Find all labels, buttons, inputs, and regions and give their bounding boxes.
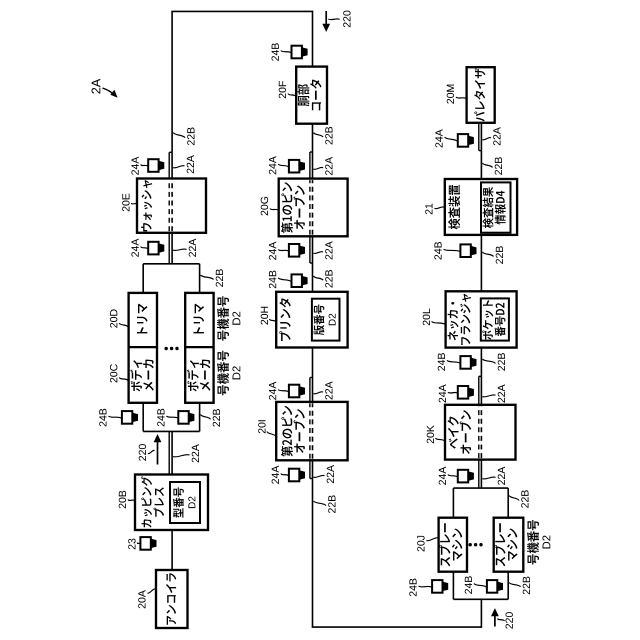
- wire row3: 21 to 22A stub before palletizer: [480, 151, 482, 179]
- data box 版番号 D2 in 20H: [312, 299, 340, 341]
- label 22A before 20M: [493, 127, 500, 145]
- label 22B at right bank bus: [216, 269, 223, 287]
- camera 24B before spray machine 1: [432, 580, 442, 593]
- data box 検査結果情報D4 in 21: [481, 182, 511, 232]
- label 情報D4: [495, 191, 506, 225]
- label 220 row3: [506, 612, 513, 629]
- label 220 row1: [139, 444, 146, 461]
- leader to camera 24A left of pin oven 20I: [281, 474, 289, 477]
- label 22B between 20F and 20G: [325, 127, 332, 145]
- leader for 22A right of 20I: [314, 392, 324, 394]
- label 20I 2nd pin oven: [258, 420, 265, 433]
- label オーブン in 20I: [293, 409, 305, 453]
- machine box 20L necker flanger: [446, 291, 517, 347]
- leader for 22B between 20G and 20H: [314, 276, 324, 280]
- leader for 20D trimmer: [119, 323, 128, 327]
- machine box bodymaker/trimmer pair 2: [185, 293, 213, 403]
- label D2 under bodymaker 2: [232, 366, 240, 379]
- leader to camera 24B right of coater 20F: [281, 51, 291, 54]
- wire row2: printer 20H to 2nd pin oven 20I with 22A stub: [312, 348, 314, 402]
- wire pair row3: bus to bake oven 20K: [480, 460, 482, 489]
- label パレタイザ: [474, 68, 485, 121]
- label 24A for camera 24A left of bake oven 20K: [439, 467, 446, 485]
- label プリンタ: [279, 298, 291, 341]
- label 22B between 20K and 20L: [498, 353, 505, 371]
- label メーカ 1: [143, 360, 154, 391]
- label 24A for camera 24A before palletizer 20M: [435, 129, 442, 147]
- label 22A left of 20K: [498, 467, 505, 485]
- label 220 row2: [343, 11, 350, 28]
- label 22A left of 20I: [327, 465, 334, 483]
- branch wire spray machine 1 to right bus: [452, 488, 454, 518]
- label マシン 2: [507, 528, 518, 560]
- label 20D trimmer: [110, 309, 117, 327]
- wire pair row3: 20K to secondary end: [480, 376, 482, 405]
- label トリマ 2: [194, 304, 205, 334]
- tick start of conveyor 22A row2: [310, 151, 313, 153]
- label 号機番号 under bodymaker 2: [217, 351, 229, 396]
- bus line left of spray machine bank: [453, 598, 508, 600]
- leader for 22B between 20L and 21: [482, 252, 493, 257]
- leader to camera 23 between 20A and 20B: [137, 543, 140, 545]
- machine box 20B cupping press: [135, 475, 208, 531]
- camera 24A right of pin oven 20I: [289, 385, 299, 398]
- label 20K bake oven: [427, 425, 434, 443]
- leader to camera 24B before bodymaker 2: [167, 416, 179, 418]
- label 20G 1st pin oven: [261, 197, 268, 216]
- label 番号D2: [495, 303, 506, 336]
- branch wire to bodymaker/trimmer row 2: [199, 403, 201, 432]
- machine box 20I 2nd pin oven: [276, 402, 347, 460]
- arrow 220 flow row3: [494, 615, 496, 626]
- ellipsis dots between bodymaker pairs: [165, 347, 168, 350]
- wire pair row1: washer to 22A end tick: [171, 152, 173, 178]
- leader to camera 24B before spray machine 2: [474, 584, 487, 588]
- label 24A for camera 24A right of bake oven 20K: [439, 384, 446, 402]
- dashed conveyor through washer 20E: [171, 180, 173, 231]
- leader for 20F coater: [288, 94, 296, 97]
- label 22B end of row1: [187, 127, 194, 145]
- label 20M palletizer: [447, 85, 454, 104]
- wire conveyor 22A row1: uncoiler 20A to cupping press 20B: [171, 530, 173, 570]
- leader for 22B end of row1: [173, 133, 185, 138]
- leader 220 row3: [498, 619, 505, 622]
- label 20E washer: [122, 194, 129, 212]
- label 24B for camera 24B before spray machine 1: [409, 579, 416, 597]
- camera 24B between 20K and 20L: [460, 356, 470, 369]
- machine box 20K bake oven: [445, 405, 516, 460]
- label ベイク: [448, 416, 459, 448]
- bus line left of bodymaker bank: [143, 430, 199, 432]
- branch wire to spray machine 2: [507, 572, 509, 600]
- machine box 20M palletizer: [467, 67, 495, 123]
- leader to camera 24A right of washer: [141, 165, 148, 167]
- label 22A right of 20I: [325, 381, 332, 399]
- leader to camera 24B before bodymaker 1: [109, 416, 122, 418]
- tick end of 22A row2: [310, 478, 313, 480]
- label 胴部: [298, 84, 310, 106]
- leader for 20C bodymaker: [119, 378, 128, 381]
- label スプレー 2: [494, 523, 505, 566]
- wire row3: to necker-flanger 20L: [480, 348, 482, 377]
- leader for 22B between 20F and 20G: [314, 133, 324, 138]
- leader for 22A at 20B: [173, 455, 189, 457]
- camera 24B before spray machine 2: [487, 580, 497, 593]
- wire row3: 20L to inspection device 21: [480, 235, 482, 291]
- label マシン 1: [452, 528, 463, 560]
- leader for 22B row2 end: [314, 501, 327, 506]
- leader for 20J spray machine: [427, 538, 439, 541]
- machine box 20G 1st pin oven: [279, 179, 348, 237]
- leader for 22B at left bank bus: [201, 415, 211, 420]
- branch wire from trimmer row 2 to right bus: [199, 264, 201, 293]
- leader for 22B between 20K and 20L: [482, 359, 495, 363]
- wire pair row2: left of 20I: [312, 460, 314, 478]
- leader for 22A left of 20G: [314, 252, 324, 254]
- label トリマ 1: [137, 304, 148, 334]
- ellipsis dots between spray machines: [469, 543, 472, 546]
- camera 23 between 20A and 20B: [140, 537, 150, 550]
- machine box 20F bottom coater: [296, 67, 327, 124]
- label 20J spray machine: [417, 536, 424, 552]
- label 24A for camera 24A left of pin oven 20G: [269, 242, 276, 260]
- wire right wrap down to row2: [171, 10, 312, 12]
- machine box spray machine 2: [494, 518, 524, 572]
- leader for 21 inspection device: [435, 207, 445, 209]
- wire network 22B row1 to top-right corner: [171, 11, 173, 152]
- leader 220 row2: [328, 18, 339, 21]
- label ボディ 2: [187, 360, 199, 391]
- label ボディ 1: [130, 360, 142, 391]
- leader for 22A right of 20G: [314, 167, 324, 169]
- data box 型番号 D2 in 20B: [170, 482, 200, 523]
- branch wire to spray machine 1: [452, 572, 454, 600]
- leader to camera 24A right of pin oven 20I: [278, 390, 288, 393]
- label D2 in 20H: [329, 314, 336, 326]
- label 型番号: [173, 487, 184, 517]
- leader for 22B spray bank right: [509, 496, 519, 501]
- tick end of 22A stub left of 20G: [310, 262, 313, 264]
- label コータ: [310, 79, 321, 110]
- camera 24A left of bake oven 20K: [458, 470, 468, 483]
- leader to camera 24B between 20H and 20G: [278, 278, 291, 282]
- leader for 22A left of washer: [173, 249, 186, 251]
- wire left wrap down to row3: [312, 626, 482, 628]
- label 20F coater: [279, 81, 286, 98]
- label 号機番号 under trimmer 2: [217, 296, 229, 341]
- label 24B->22B spray bank left: [523, 577, 530, 595]
- label 20L necker flanger: [423, 309, 430, 326]
- leader for 20A uncoiler: [148, 589, 156, 593]
- label 23 for camera 23 between 20A and 20B: [128, 539, 135, 550]
- label 20C bodymaker: [110, 364, 117, 382]
- bus line right of trimmer bank: [143, 263, 199, 265]
- label 号機番号 under spray machine 2: [527, 520, 539, 565]
- label 20B cupping press: [119, 491, 126, 509]
- label 22B at left bank bus: [213, 409, 220, 427]
- tick start of 22A before palletizer: [479, 150, 482, 152]
- leader for 20M palletizer: [456, 97, 466, 99]
- leader to camera 24A left of pin oven 20G: [278, 250, 288, 252]
- label オーブン in 20K: [460, 410, 472, 454]
- camera 24B before bodymaker 1: [122, 411, 132, 424]
- camera 24A right of washer: [148, 159, 158, 172]
- leader for 20I 2nd pin oven: [267, 432, 276, 437]
- label 検査結果: [483, 187, 494, 228]
- leader for 20K bake oven: [436, 438, 445, 441]
- arrow for 2A: [103, 88, 114, 94]
- wire pair row3: to palletizer 20M: [480, 123, 482, 151]
- leader 220 row1: [148, 450, 155, 453]
- leader for 22B between 21 and 20M: [482, 163, 492, 168]
- leader to camera 24B before spray machine 1: [419, 586, 432, 588]
- leader for 20B cupping press: [128, 500, 135, 502]
- label 24A for camera 24A right of pin oven 20G: [269, 156, 276, 174]
- label スプレー 1: [439, 523, 450, 566]
- camera 24A before palletizer 20M: [458, 134, 468, 147]
- wire network 22B row2 to left wrap: [312, 479, 314, 628]
- leader to camera 24B between 20K and 20L: [447, 360, 460, 363]
- leader to camera 24A before palletizer 20M: [445, 137, 458, 141]
- wire pair row1: bus to washer 20E: [171, 233, 173, 264]
- label 22B between 21 and 20M: [495, 157, 502, 175]
- label 24B for camera 24B right of coater 20F: [272, 43, 279, 61]
- branch wire from trimmer row 1 to right bus: [142, 264, 144, 293]
- machine box 20H printer: [276, 292, 347, 348]
- label 22A right of washer: [187, 155, 194, 173]
- camera 24B between 20L and 21: [460, 244, 470, 257]
- label 22A left of 20G: [325, 241, 332, 259]
- machine box 21 inspection device: [445, 179, 517, 235]
- dashed conveyor through bake oven 20K: [480, 406, 482, 458]
- dashed conveyor through 2nd pin oven 20I: [312, 403, 314, 458]
- label 24A for camera 24A right of pin oven 20I: [269, 382, 276, 400]
- label プレス: [154, 487, 165, 516]
- label 24A for camera 24A left of washer: [131, 239, 138, 257]
- leader for 22A right of 20K: [482, 395, 495, 397]
- label 24B for camera 24B between 20K and 20L: [438, 353, 445, 371]
- camera 24A right of pin oven 20G: [289, 160, 299, 173]
- label 24B for camera 24B between 20L and 21: [434, 242, 441, 260]
- label 24A for camera 24A left of pin oven 20I: [272, 466, 279, 484]
- label 2A production line: [92, 79, 101, 94]
- camera 24B right of coater 20F: [292, 46, 302, 59]
- label フランジャ: [460, 294, 471, 345]
- tick end of 22A right of 20K: [479, 375, 482, 377]
- leader to camera 24A left of washer: [141, 247, 148, 250]
- camera 24B before bodymaker 2: [178, 411, 188, 424]
- camera 24B between 20H and 20G: [292, 274, 302, 287]
- leader for 22B at right bank bus: [201, 275, 214, 280]
- leader for 22A before 20M: [482, 138, 491, 140]
- machine box 20A uncoiler: [156, 570, 188, 628]
- leader for 22A right of washer: [173, 166, 184, 168]
- label D2 under spray machine 2: [542, 536, 550, 549]
- divider bodymaker/trimmer 1: [129, 346, 157, 348]
- label 22B between 20L and 21: [496, 246, 503, 264]
- label カッピング: [141, 476, 152, 527]
- label 22B row2 end: [328, 495, 335, 513]
- leader for 22A left of 20K: [482, 477, 495, 479]
- label D2: [188, 497, 195, 509]
- label 24A for camera 24A right of washer: [131, 157, 138, 175]
- dashed conveyor through 1st pin oven 20G: [312, 180, 314, 235]
- label 22B spray bank right: [521, 490, 528, 508]
- tick start of 22A stub right of 20I: [310, 377, 313, 379]
- wire row3: wrap corner to spray bus: [480, 599, 482, 628]
- camera 24A left of pin oven 20I: [289, 469, 299, 482]
- machine box spray machine 1: [439, 518, 467, 572]
- branch wire to bodymaker/trimmer row 1: [142, 403, 144, 432]
- camera 24A left of pin oven 20G: [289, 244, 299, 257]
- leader for 22A left of 20I: [314, 475, 325, 477]
- leader to camera 24B between 20L and 21: [444, 249, 461, 252]
- bus line right of spray machine bank: [453, 487, 508, 489]
- label 検査装置: [448, 185, 460, 229]
- leader for 20L necker flanger: [432, 322, 446, 325]
- label 22A right of 20G: [325, 157, 332, 175]
- label 20A uncoiler: [138, 590, 145, 608]
- label メーカ 2: [200, 360, 211, 391]
- arrow 220 flow row1: [157, 441, 159, 465]
- label 第1のピン: [281, 182, 293, 233]
- label 24B for camera 24B between 20H and 20G: [269, 271, 276, 289]
- label 版番号: [313, 305, 324, 336]
- label オーブン: [293, 186, 305, 230]
- wire pair row2: 20G to secondary end: [312, 236, 314, 263]
- camera 24A left of washer: [148, 242, 158, 255]
- label 22B between 20G and 20H: [325, 270, 332, 288]
- label 22A right of 20K: [498, 384, 505, 402]
- divider bodymaker/trimmer 2: [185, 346, 213, 348]
- leader for 20E washer: [132, 203, 137, 205]
- leader for 20H printer: [270, 319, 276, 322]
- label 22A left of washer: [189, 239, 196, 257]
- label 24B for camera 24B before bodymaker 2: [157, 409, 164, 427]
- wire row2: 20G zone to printer 20H: [312, 263, 314, 292]
- wire pair 22A/22B row1: 20B to bank bus: [171, 431, 173, 474]
- arrow 220 flow row2: [325, 11, 327, 25]
- machine box bodymaker/trimmer pair 1: [129, 293, 157, 403]
- label ポケット: [482, 300, 493, 340]
- label 21 inspection device: [425, 204, 432, 215]
- camera 24A right of bake oven 20K: [458, 386, 468, 399]
- wire row2: corner to coater 20F: [312, 11, 314, 67]
- label ウォッシャ: [141, 180, 152, 231]
- label 24B for camera 24B before bodymaker 1: [99, 409, 106, 427]
- label アンコイラ: [166, 573, 176, 625]
- machine box 20E washer: [137, 179, 206, 233]
- leader for 20G 1st pin oven: [270, 209, 278, 211]
- tick end of conveyor 22A row1: [169, 151, 172, 153]
- label D2 under trimmer 2: [232, 312, 240, 325]
- label 24B for camera 24B before spray machine 2: [465, 576, 472, 594]
- data box ポケット番号 D2 in 20L: [481, 298, 509, 340]
- wire row2: 20F to pin oven 20G with 22A stub: [312, 124, 314, 179]
- label ネッカ・: [448, 302, 459, 340]
- branch wire spray machine 2 to right bus: [507, 488, 509, 518]
- leader to camera 24A left of bake oven 20K: [448, 475, 458, 478]
- leader to camera 24A right of bake oven 20K: [448, 392, 458, 393]
- label 22A at 20B: [192, 444, 199, 462]
- leader for 24B->22B spray bank left: [509, 583, 520, 587]
- label 第2のピン: [281, 406, 293, 457]
- label 20H printer: [261, 307, 268, 325]
- leader to camera 24A right of pin oven 20G: [278, 164, 288, 167]
